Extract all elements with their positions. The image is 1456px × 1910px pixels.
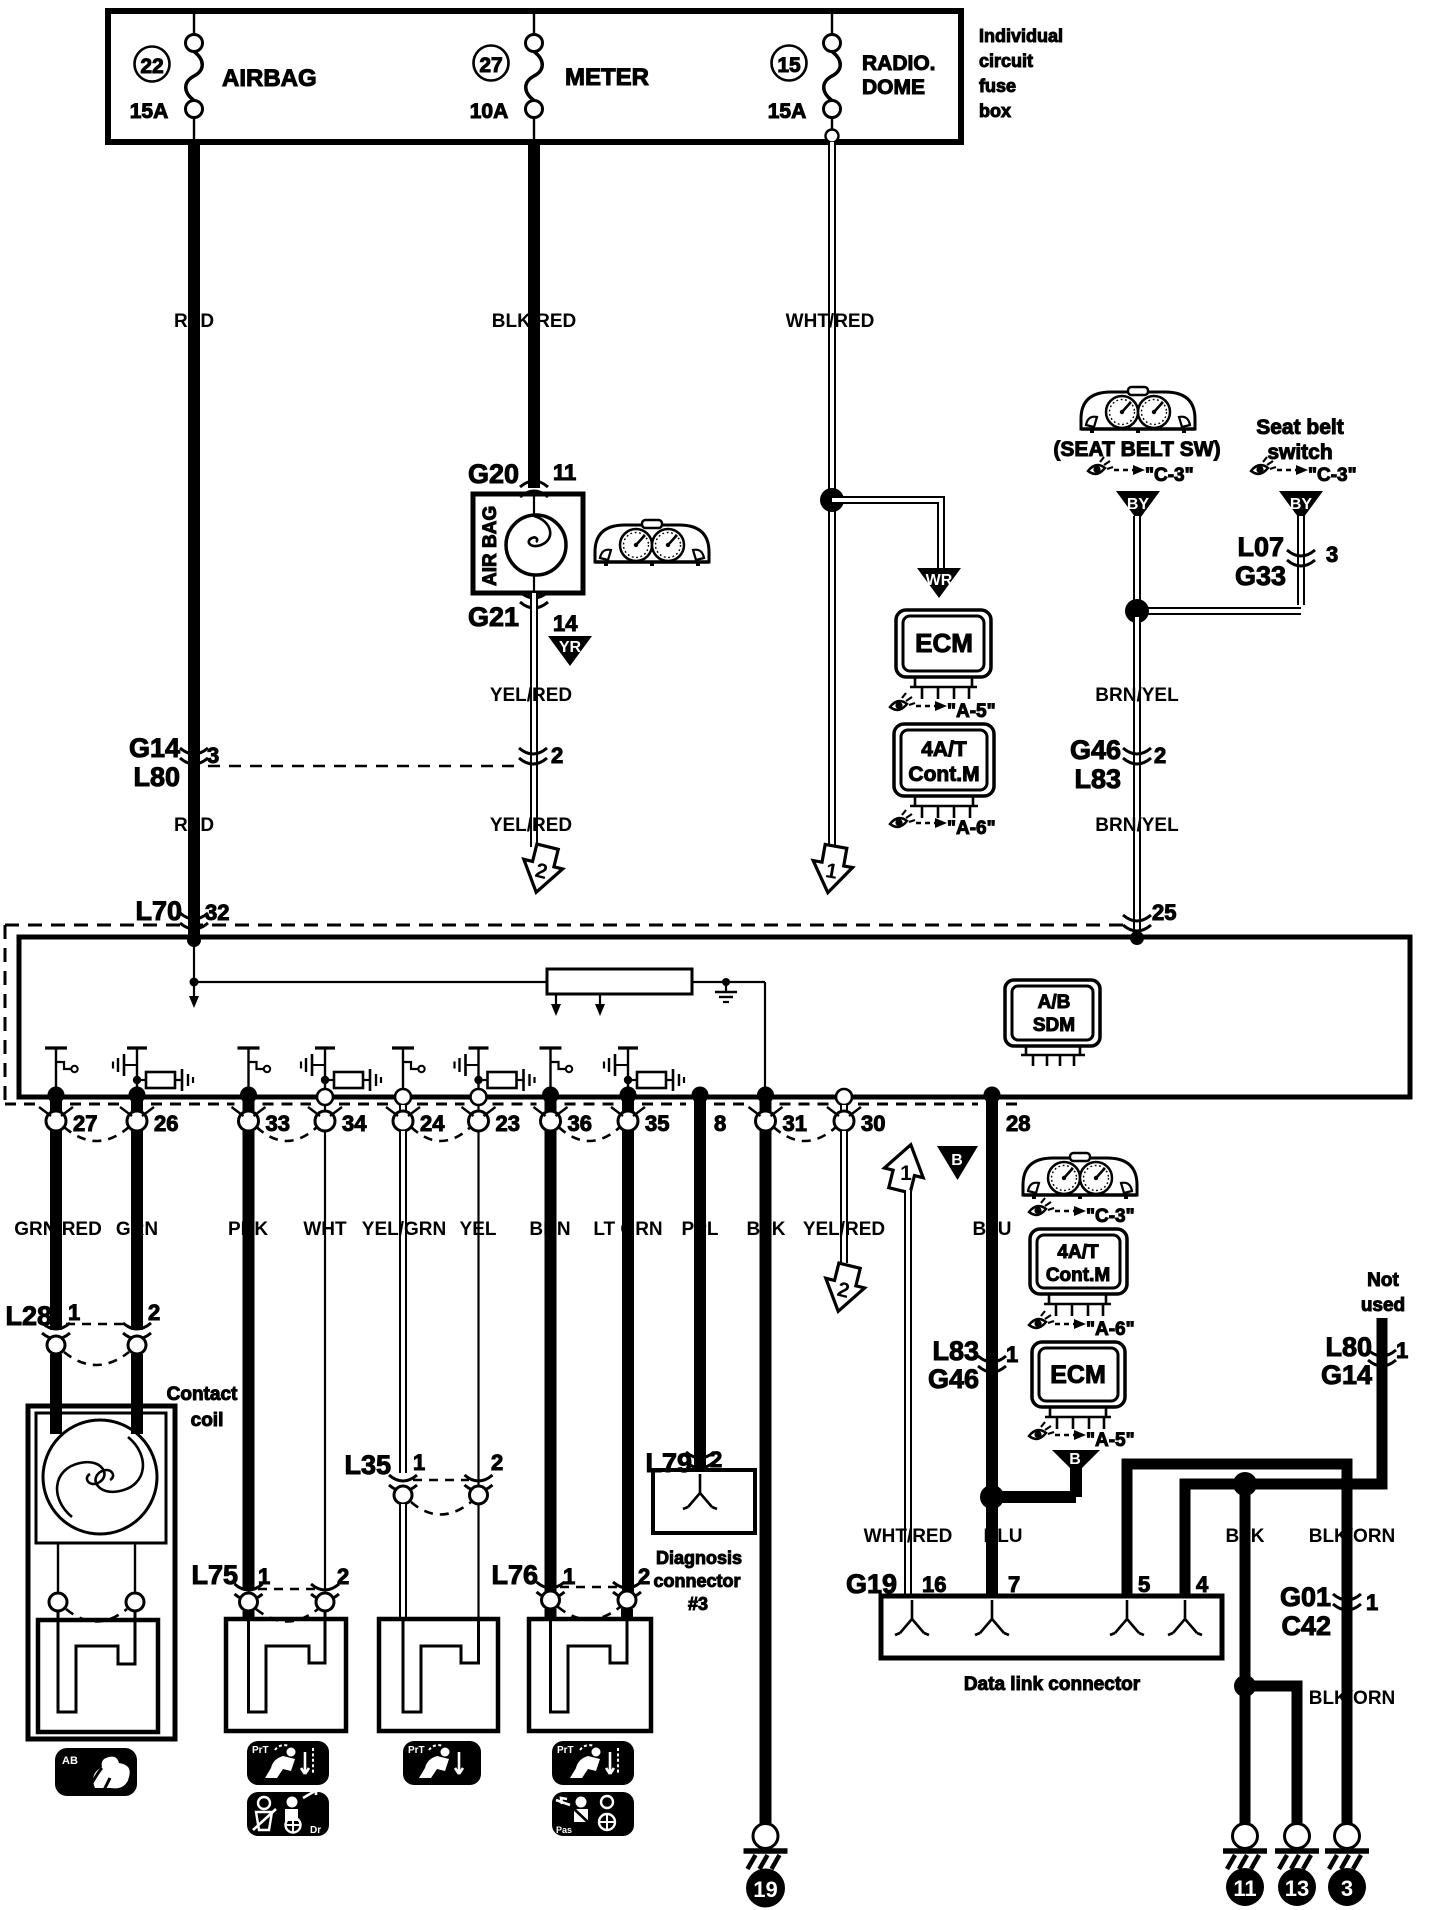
wire DLC 5 to ground 3 <box>1127 1464 1347 1824</box>
svg-text:22: 22 <box>140 55 163 78</box>
connector dashed boundary (left side) <box>4 925 7 1104</box>
svg-text:25: 25 <box>1152 900 1176 925</box>
SDM pin 30 <box>827 1089 885 1136</box>
svg-text:G14: G14 <box>129 733 180 763</box>
wires BRN / LT GRN into box <box>545 1609 557 1620</box>
svg-text:"A-6": "A-6" <box>947 818 996 839</box>
SDM internal: resistor (energy reserve) <box>547 969 692 994</box>
connector L79 pin 2 <box>645 1447 722 1478</box>
svg-text:AB: AB <box>62 1755 78 1767</box>
svg-text:L80: L80 <box>133 762 180 792</box>
svg-text:24: 24 <box>420 1111 445 1136</box>
svg-text:GRN/RED: GRN/RED <box>14 1219 102 1240</box>
svg-text:11: 11 <box>553 460 576 485</box>
junction on WHT/RED <box>820 488 844 512</box>
svg-text:2: 2 <box>638 1564 650 1589</box>
triangle B (near SDM) <box>937 1146 978 1180</box>
svg-text:G33: G33 <box>1235 561 1286 591</box>
svg-text:L35: L35 <box>344 1450 391 1480</box>
svg-text:11: 11 <box>1233 1876 1256 1901</box>
fuse 22 15A AIRBAG <box>130 14 317 139</box>
svg-text:Diagnosis: Diagnosis <box>656 1548 742 1568</box>
connector G01/C42 pin 1 <box>1280 1582 1378 1641</box>
connector L07/G33 pin 3 <box>1235 532 1338 591</box>
junction BLK branch <box>1234 1675 1256 1697</box>
icon instrument cluster (beside AIR BAG lamp) <box>595 520 709 566</box>
ECM box (top) <box>896 610 991 699</box>
svg-text:L83: L83 <box>1074 764 1121 794</box>
icon PrT pretensioner (passenger) <box>552 1741 634 1785</box>
connector G20 pin 11 <box>468 459 576 497</box>
svg-text:BY: BY <box>1127 496 1150 513</box>
wire GRN/RED SDM 27 to contact coil <box>50 1131 62 1330</box>
icon belt warning (Pas) <box>552 1792 634 1836</box>
svg-text:4A/T: 4A/T <box>921 738 967 761</box>
driver airbag squib box <box>38 1620 158 1732</box>
svg-text:2: 2 <box>551 743 563 768</box>
triangle WR <box>917 568 961 598</box>
svg-text:G20: G20 <box>468 459 519 489</box>
svg-text:36: 36 <box>568 1111 592 1136</box>
svg-text:B: B <box>951 1152 963 1169</box>
SDM pin 36 <box>534 1048 592 1136</box>
svg-text:8: 8 <box>714 1111 726 1136</box>
svg-text:AIRBAG: AIRBAG <box>222 65 317 92</box>
svg-text:Individual: Individual <box>979 26 1063 46</box>
wire GRN/RED L28 to coil <box>50 1354 62 1434</box>
svg-text:(SEAT BELT SW): (SEAT BELT SW) <box>1053 438 1220 461</box>
eye ref A-5 (right) <box>1029 1422 1135 1451</box>
svg-text:METER: METER <box>565 64 649 91</box>
svg-text:WR: WR <box>926 572 953 589</box>
wire YEL L35 to box <box>477 1504 479 1620</box>
wire WHT SDM 34 to L75 <box>324 1131 326 1590</box>
wire BLU SDM 28 to DLC 7 <box>986 1097 998 1594</box>
wire BRN/YEL junction to SDM pin 25 (double) <box>1133 611 1141 937</box>
svg-text:1: 1 <box>563 1564 575 1589</box>
svg-text:Not: Not <box>1367 1270 1399 1291</box>
junction BY wires <box>1125 599 1149 623</box>
off-page arrow 2 (down, pin30) <box>819 1261 869 1316</box>
svg-text:27: 27 <box>479 54 502 77</box>
svg-text:WHT/RED: WHT/RED <box>786 311 875 332</box>
pretensioner squib box (driver) <box>226 1619 346 1731</box>
eye ref A-5 (top ECM) <box>890 693 996 722</box>
svg-text:YEL/RED: YEL/RED <box>490 685 572 706</box>
A/B SDM solid box <box>19 937 1410 1097</box>
off-page arrow 1 (up) <box>880 1140 930 1195</box>
wire BY left (double) down to junction <box>1133 516 1141 612</box>
svg-text:AIR BAG: AIR BAG <box>480 506 501 586</box>
connector L35 pins 1,2 <box>344 1450 503 1515</box>
svg-text:14: 14 <box>553 611 578 636</box>
SDM connector dashed line (bottom) <box>5 1103 1018 1106</box>
4A/T Cont.M box (top) <box>894 724 994 818</box>
wire B triangle to BLU junction <box>992 1466 1076 1497</box>
triangle B (near ECM) <box>1052 1450 1100 1474</box>
svg-text:BLU: BLU <box>972 1219 1011 1240</box>
icon child seat warning (Dr) <box>247 1790 329 1836</box>
A/B SDM label box <box>1005 980 1100 1066</box>
wire BRN SDM 36 to L76 <box>545 1131 557 1592</box>
svg-text:28: 28 <box>1006 1111 1030 1136</box>
ground symbol 11 <box>1223 1824 1267 1907</box>
svg-text:31: 31 <box>783 1111 807 1136</box>
DLC terminal forks <box>895 1600 929 1635</box>
lamp AIR BAG warning light (instrument cluster) <box>473 494 583 593</box>
svg-text:13: 13 <box>1285 1876 1309 1901</box>
svg-text:G21: G21 <box>468 602 519 632</box>
wire GRN SDM 26 to contact coil <box>131 1131 143 1330</box>
svg-text:B: B <box>1069 1451 1081 1468</box>
icon instrument cluster (SEAT BELT SW) <box>1081 387 1195 433</box>
L79 terminal fork <box>683 1474 717 1509</box>
svg-text:YEL/RED: YEL/RED <box>490 815 572 836</box>
svg-text:L07: L07 <box>1237 532 1284 562</box>
eye ref C-3 (right) <box>1029 1198 1135 1227</box>
svg-text:Cont.M: Cont.M <box>1046 1265 1110 1286</box>
svg-text:1: 1 <box>1396 1338 1408 1363</box>
SDM pin 33 <box>232 1048 290 1136</box>
svg-text:2: 2 <box>491 1450 503 1475</box>
svg-text:15A: 15A <box>768 100 807 123</box>
wire YEL/RED from G21 down to arrow 2 (double line) <box>530 593 538 847</box>
caption Contact coil <box>167 1384 238 1431</box>
svg-text:4: 4 <box>1196 1572 1209 1597</box>
svg-text:L75: L75 <box>191 1560 238 1590</box>
wire PPL SDM 8 to L79 <box>694 1131 706 1468</box>
wire YEL SDM 23 to L35 <box>477 1131 479 1487</box>
svg-text:BLU: BLU <box>983 1526 1022 1547</box>
SDM pin 26 <box>113 1048 193 1136</box>
svg-text:LT GRN: LT GRN <box>593 1219 662 1240</box>
svg-text:10A: 10A <box>470 100 509 123</box>
svg-text:4A/T: 4A/T <box>1057 1242 1099 1263</box>
svg-text:19: 19 <box>753 1877 777 1902</box>
svg-text:Dr: Dr <box>310 1825 321 1836</box>
svg-text:15A: 15A <box>130 100 169 123</box>
dashed pair arcs below SDM pins <box>64 1127 129 1141</box>
SDM internal: ground tap <box>715 978 737 1002</box>
eye ref C-3 (cluster) <box>1088 457 1194 486</box>
junction BLK / pin4 wire <box>1233 1472 1257 1496</box>
svg-text:1: 1 <box>900 1162 912 1185</box>
svg-text:L70: L70 <box>135 896 182 926</box>
contact coil inner box <box>36 1413 166 1543</box>
wire PNK SDM 33 to L75 <box>243 1131 255 1590</box>
svg-text:coil: coil <box>191 1410 224 1431</box>
svg-text:G46: G46 <box>1070 735 1121 765</box>
svg-text:1: 1 <box>68 1300 80 1325</box>
Diagnosis connector #3 box <box>653 1470 755 1533</box>
svg-text:PPL: PPL <box>682 1219 719 1240</box>
junction BLU <box>980 1485 1004 1509</box>
svg-text:2: 2 <box>148 1300 160 1325</box>
wire GRN L28 to coil <box>131 1354 143 1434</box>
passenger airbag squib box <box>529 1619 651 1731</box>
connector G19 pin 16 <box>846 1569 947 1599</box>
svg-text:WHT: WHT <box>303 1219 347 1240</box>
svg-text:PrT: PrT <box>557 1745 574 1756</box>
svg-text:A/B: A/B <box>1038 992 1071 1013</box>
eye ref A-6 (right) <box>1029 1311 1135 1340</box>
svg-text:Seat belt: Seat belt <box>1256 416 1344 439</box>
wire BLK/ORN not-used stub to DLC 4 <box>1185 1318 1382 1596</box>
SDM internal: supply rail wire <box>194 981 765 983</box>
svg-text:GRN: GRN <box>116 1219 158 1240</box>
svg-text:BLK/RED: BLK/RED <box>492 311 576 332</box>
SDM pin 35 <box>604 1048 684 1136</box>
svg-text:5: 5 <box>1138 1572 1150 1597</box>
svg-text:BLK/ORN: BLK/ORN <box>1309 1688 1396 1709</box>
svg-text:L80: L80 <box>1325 1332 1372 1362</box>
svg-text:circuit: circuit <box>979 51 1033 71</box>
svg-text:BY: BY <box>1290 496 1313 513</box>
svg-text:BRN/YEL: BRN/YEL <box>1095 685 1179 706</box>
svg-text:RED: RED <box>174 311 214 332</box>
SDM pin 28 <box>984 1087 1031 1137</box>
svg-text:SDM: SDM <box>1033 1015 1075 1036</box>
connector G21 pin 14 <box>468 592 578 636</box>
wire YEL/RED SDM 30 to arrow 2 (double) <box>840 1131 848 1263</box>
svg-text:G01: G01 <box>1280 1582 1331 1612</box>
caption Diagnosis connector #3 <box>653 1548 742 1614</box>
contact coil assembly outer box <box>28 1406 175 1739</box>
connector L75 pins 1,2 <box>191 1560 349 1622</box>
connector L80/G14 pin 1 <box>1321 1332 1408 1390</box>
svg-text:YEL/GRN: YEL/GRN <box>362 1219 446 1240</box>
svg-text:"C-3": "C-3" <box>1145 465 1194 486</box>
squib element (driver pretensioner) <box>249 1611 326 1712</box>
svg-text:23: 23 <box>496 1111 520 1136</box>
off-page arrow 2 (down) <box>517 842 567 897</box>
svg-text:3: 3 <box>1326 542 1338 567</box>
svg-text:35: 35 <box>645 1111 669 1136</box>
svg-text:#3: #3 <box>688 1594 708 1614</box>
svg-text:"A-5": "A-5" <box>1086 1430 1135 1451</box>
svg-text:34: 34 <box>342 1111 367 1136</box>
connector L28 pins 1,2 <box>5 1300 160 1365</box>
svg-text:fuse: fuse <box>979 76 1016 96</box>
SDM pin 8 <box>692 1087 727 1137</box>
wire PNK into box <box>243 1611 255 1620</box>
svg-text:BLK: BLK <box>746 1219 785 1240</box>
wire BLK branch to ground 13 <box>1245 1686 1297 1824</box>
svg-text:RED: RED <box>174 815 214 836</box>
connector L83/G46 pin 1 on BLU <box>928 1336 1018 1394</box>
svg-text:"A-6": "A-6" <box>1086 1319 1135 1340</box>
wire BLK/RED fuse 27 to G20 <box>528 141 540 488</box>
svg-text:26: 26 <box>154 1111 178 1136</box>
SDM pin 25 entry mark <box>1123 900 1176 945</box>
svg-text:7: 7 <box>1008 1572 1020 1597</box>
svg-text:G14: G14 <box>1321 1360 1372 1390</box>
SDM internal: arrows below resistor <box>551 994 605 1016</box>
svg-text:30: 30 <box>861 1111 885 1136</box>
SDM pin 23 <box>455 1048 535 1136</box>
svg-text:"C-3": "C-3" <box>1086 1206 1135 1227</box>
svg-text:BLK/ORN: BLK/ORN <box>1309 1526 1396 1547</box>
svg-text:"C-3": "C-3" <box>1308 465 1357 486</box>
wire BLK junction to ground 11 <box>1240 1484 1251 1824</box>
branch wire to WR triangle (double line) <box>832 500 941 568</box>
svg-text:33: 33 <box>266 1111 290 1136</box>
driver airbag squib element <box>58 1611 135 1712</box>
wire BY right (double) down and left to junction <box>1137 516 1301 611</box>
ground symbol 13 <box>1275 1824 1319 1907</box>
svg-text:Contact: Contact <box>167 1384 238 1405</box>
connector L70 dashed boundary (top) <box>5 924 1123 927</box>
connector (G14/L80) pin 2 on YEL/RED <box>519 743 563 768</box>
triangle BY (right) <box>1279 491 1323 521</box>
svg-text:Pas: Pas <box>556 1825 572 1835</box>
svg-text:BRN/YEL: BRN/YEL <box>1095 815 1179 836</box>
caption: Individual circuit fuse box <box>979 26 1063 121</box>
connector L76 pins 1,2 <box>491 1560 650 1620</box>
ground symbol 3 <box>1325 1824 1369 1907</box>
svg-text:box: box <box>979 101 1011 121</box>
svg-text:Data link connector: Data link connector <box>964 1674 1141 1695</box>
svg-text:BLK: BLK <box>1225 1526 1264 1547</box>
svg-text:ECM: ECM <box>1050 1361 1106 1389</box>
svg-text:ECM: ECM <box>915 628 973 658</box>
SDM internal: pin32 node and arrow <box>187 933 201 1008</box>
connector L70 pin 32 mark <box>135 896 229 929</box>
connector G14/L80 pin 3 on RED wire <box>129 733 519 792</box>
fuse 27 10A METER <box>470 14 649 139</box>
triangle YR <box>548 636 592 666</box>
svg-text:16: 16 <box>922 1572 946 1597</box>
ECM box (right) <box>1032 1342 1125 1429</box>
svg-text:YEL/RED: YEL/RED <box>803 1219 885 1240</box>
svg-text:"A-5": "A-5" <box>947 701 996 722</box>
caption Not used <box>1361 1270 1405 1316</box>
triangle BY (left) <box>1116 491 1160 521</box>
svg-text:PNK: PNK <box>228 1219 268 1240</box>
SDM pin 34 <box>301 1048 381 1136</box>
wire WHT/RED fuse 15 down to arrow 1 (double line) <box>828 142 836 846</box>
svg-text:PrT: PrT <box>408 1745 425 1756</box>
svg-text:1: 1 <box>1366 1590 1378 1615</box>
svg-text:L83: L83 <box>932 1336 979 1366</box>
svg-text:Cont.M: Cont.M <box>908 763 979 786</box>
SDM pin 31 <box>749 1087 807 1137</box>
SDM pin 24 <box>386 1048 445 1136</box>
wire WHT/RED arrow1 to DLC 16 (double) <box>904 1190 912 1594</box>
squib element (passenger) <box>551 1611 628 1712</box>
svg-text:BRN: BRN <box>529 1219 570 1240</box>
SDM pin 27 <box>39 1048 97 1136</box>
contact coil spiral <box>43 1420 157 1534</box>
svg-text:L76: L76 <box>491 1560 538 1590</box>
icon instrument cluster (right, near 4A/T) <box>1023 1153 1137 1199</box>
svg-text:1: 1 <box>413 1450 425 1475</box>
svg-text:used: used <box>1361 1295 1405 1316</box>
SDM internal: wire down to pin 31 <box>764 982 766 1094</box>
passenger pretensioner squib box <box>379 1619 498 1731</box>
caption Seat belt switch <box>1256 416 1344 464</box>
wire LT GRN SDM 35 to L76 <box>622 1131 634 1592</box>
connector G46/L83 pin 2 <box>1070 735 1166 794</box>
squib element (middle) <box>403 1620 479 1712</box>
svg-text:RADIO.: RADIO. <box>862 52 936 75</box>
svg-text:G46: G46 <box>928 1364 979 1394</box>
icon PrT pretensioner (middle) <box>403 1741 481 1785</box>
Data link connector box <box>881 1596 1222 1658</box>
svg-text:YEL: YEL <box>460 1219 497 1240</box>
svg-text:27: 27 <box>73 1111 97 1136</box>
svg-text:connector: connector <box>653 1571 740 1591</box>
4A/T Cont.M box (right) <box>1030 1229 1127 1316</box>
svg-text:PrT: PrT <box>252 1745 269 1756</box>
wire RED fuse 22 to SDM pin 32 <box>188 141 200 940</box>
coil lower leads <box>49 1543 144 1622</box>
fuse 15 15A RADIO.DOME <box>768 14 936 143</box>
wire YEL/GRN L35 to box (double) <box>399 1504 407 1620</box>
svg-text:2: 2 <box>1154 743 1166 768</box>
svg-text:YR: YR <box>559 639 582 656</box>
eye ref A-6 (top 4A/T) <box>890 810 996 839</box>
wire BLK SDM 31 to ground 19 <box>760 1131 772 1824</box>
off-page arrow 1 (down) on WHT/RED <box>808 843 856 896</box>
svg-text:C42: C42 <box>1281 1611 1331 1641</box>
wire YEL/GRN SDM 24 to L35 (double) <box>399 1131 407 1473</box>
svg-text:1: 1 <box>1006 1342 1018 1367</box>
eye ref C-3 (seat belt switch) <box>1251 457 1357 486</box>
svg-text:WHT/RED: WHT/RED <box>864 1526 953 1547</box>
icon PrT pretensioner (driver) <box>247 1741 329 1785</box>
svg-text:3: 3 <box>1341 1876 1353 1901</box>
svg-text:DOME: DOME <box>862 76 925 99</box>
icon AB airbag <box>55 1748 137 1796</box>
fuse box: Individual circuit fuse box <box>108 11 961 142</box>
svg-text:3: 3 <box>207 743 219 768</box>
svg-text:32: 32 <box>205 900 229 925</box>
svg-text:15: 15 <box>777 54 801 77</box>
ground symbol 19 <box>744 1824 788 1908</box>
svg-text:switch: switch <box>1267 441 1332 464</box>
